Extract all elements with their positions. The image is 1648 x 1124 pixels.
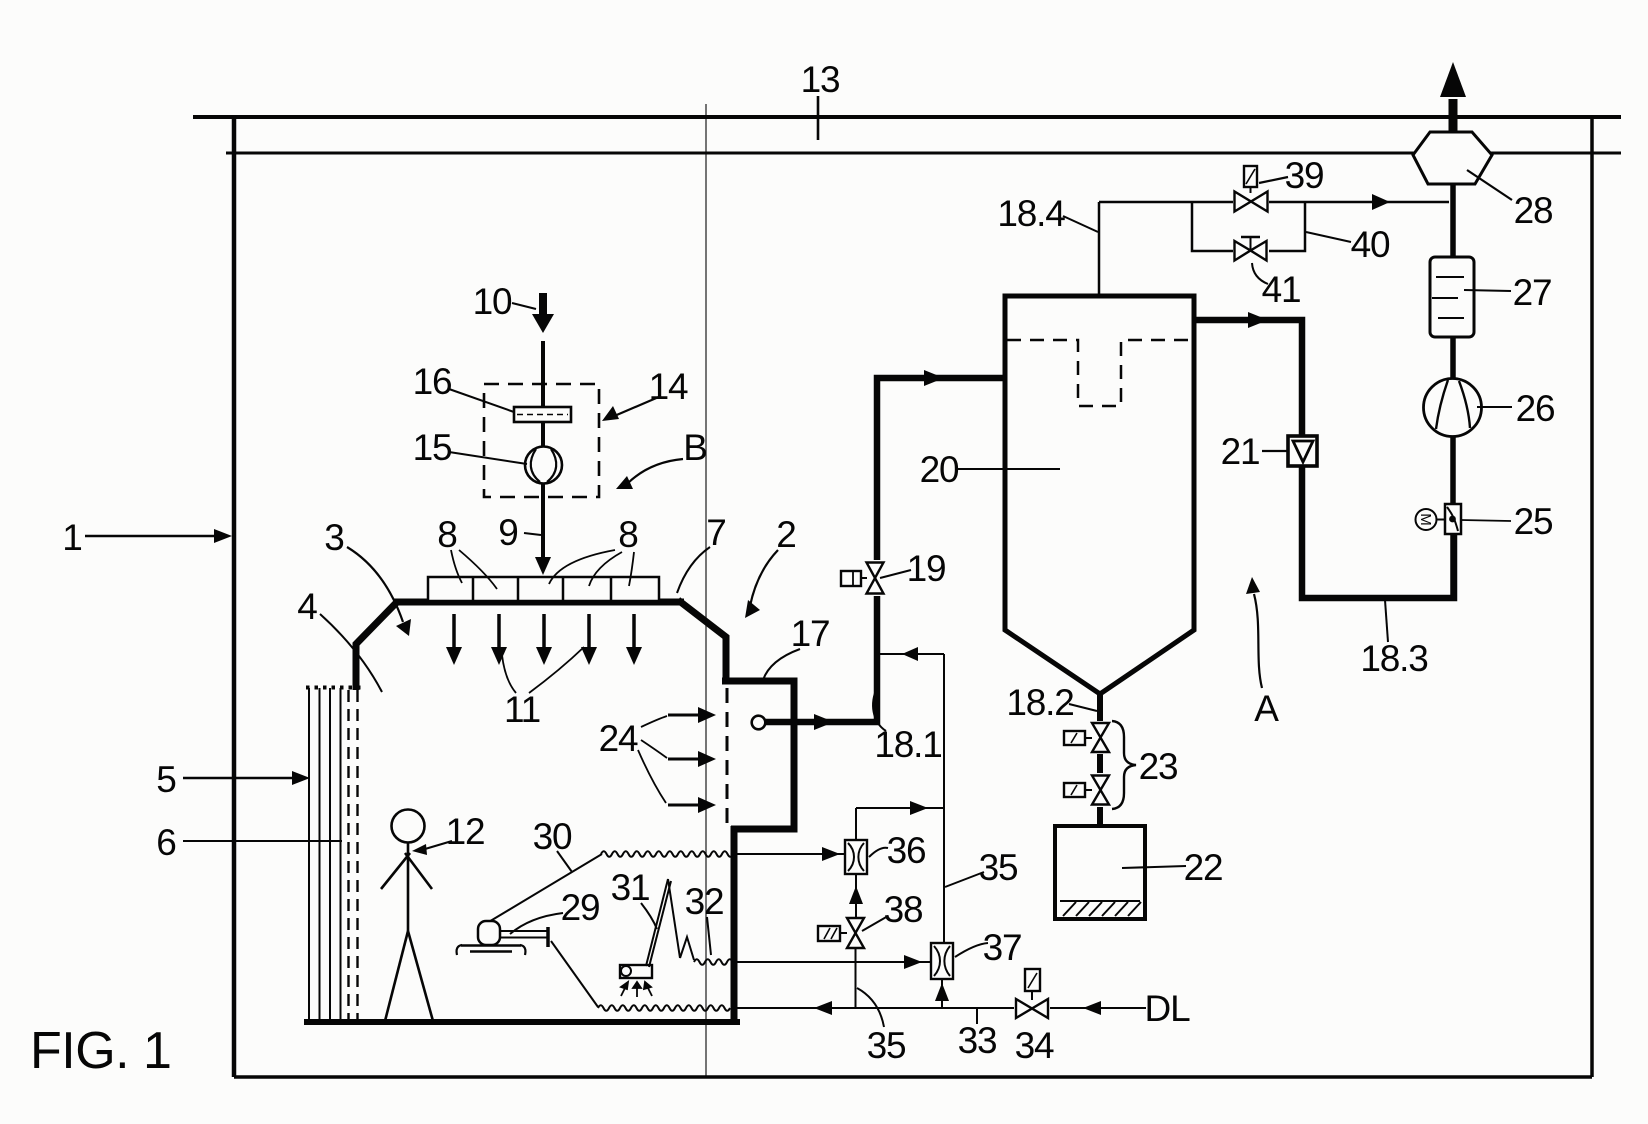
spray curtain wavy line bottom (598, 1005, 730, 1011)
svg-text:18.4: 18.4 (997, 193, 1065, 234)
feeder slab 16 (514, 407, 571, 422)
svg-text:2: 2 (776, 514, 795, 555)
svg-text:1: 1 (62, 517, 81, 558)
roof filter boxes 8 (428, 577, 659, 601)
exhaust arrow (1449, 99, 1458, 131)
svg-text:41: 41 (1262, 269, 1301, 310)
svg-text:22: 22 (1184, 847, 1223, 888)
line from chamber to venturi 37 (737, 961, 931, 963)
svg-text:39: 39 (1285, 155, 1324, 196)
svg-text:35: 35 (979, 847, 1018, 888)
svg-text:FIG. 1: FIG. 1 (30, 1022, 171, 1080)
svg-text:36: 36 (887, 830, 926, 871)
spray curtain wavy line middle 32 (694, 959, 733, 965)
crane 31 (620, 879, 694, 978)
wire: inlet duct 9 vertical pipe (541, 341, 545, 560)
venturi 36 riser (855, 808, 857, 918)
flow arrow on 18.1 horizontal (814, 714, 834, 730)
arrow into roof nozzles (535, 557, 551, 575)
hand valve 41 (1233, 241, 1269, 261)
spray zone boundary lines 30 (487, 854, 602, 923)
dust discharge pipe 18.2 (1097, 692, 1103, 828)
svg-text:15: 15 (413, 427, 452, 468)
filter wall 5/6 (306, 688, 361, 1021)
svg-text:12: 12 (446, 811, 485, 852)
venturi 37 (941, 979, 943, 1008)
svg-text:3: 3 (324, 517, 343, 558)
worker figure 12 (381, 810, 433, 1022)
venturi 36 (845, 840, 867, 874)
air arrows 24 through perforated wall (668, 707, 716, 813)
svg-text:33: 33 (958, 1020, 997, 1061)
svg-text:24: 24 (599, 718, 638, 759)
svg-text:25: 25 (1514, 501, 1553, 542)
svg-text:26: 26 (1516, 388, 1555, 429)
svg-text:6: 6 (156, 822, 175, 863)
svg-text:B: B (683, 427, 706, 468)
spray curtain wavy line top 30 (601, 851, 733, 857)
svg-text:18.2: 18.2 (1006, 682, 1073, 723)
svg-text:10: 10 (473, 281, 512, 322)
svg-text:14: 14 (649, 366, 688, 407)
svg-text:30: 30 (533, 816, 572, 857)
dust container 22 (1055, 826, 1145, 919)
control valve 39 (1233, 191, 1269, 212)
material inflow arrow 10 (539, 293, 547, 317)
svg-text:11: 11 (504, 689, 540, 730)
chamber floor (304, 1019, 740, 1025)
svg-text:20: 20 (920, 449, 959, 490)
svg-text:29: 29 (561, 887, 600, 928)
chamber wall: right slant 7 (678, 600, 726, 684)
outlet plenum 17 walls (722, 681, 794, 829)
svg-text:5: 5 (156, 759, 176, 800)
spray vehicle 29 (457, 921, 548, 955)
line from chamber to venturi 36 (737, 853, 845, 855)
svg-text:8: 8 (437, 514, 456, 555)
svg-text:27: 27 (1513, 272, 1552, 313)
svg-text:16: 16 (413, 361, 452, 402)
brace and label 23 (1112, 721, 1136, 809)
chamber wall below plenum (731, 826, 738, 1025)
flow meter 21 (1288, 436, 1317, 466)
svg-text:17: 17 (791, 613, 830, 654)
svg-text:28: 28 (1514, 190, 1553, 231)
svg-text:21: 21 (1221, 431, 1260, 472)
svg-text:34: 34 (1015, 1025, 1054, 1066)
clean gas duct to 21 and 18.3 (1192, 320, 1454, 598)
perforated wall (dashed) of plenum (726, 688, 729, 826)
svg-text:13: 13 (801, 59, 840, 100)
chamber wall: roof line (394, 599, 684, 606)
pressure air line DL (737, 1007, 1146, 1009)
svg-text:4: 4 (297, 586, 317, 627)
svg-text:8: 8 (618, 514, 637, 555)
chamber wall: left slant + stub (356, 602, 397, 690)
vortex finder (dashed) (1007, 340, 1192, 406)
svg-text:40: 40 (1351, 224, 1390, 265)
svg-text:18.3: 18.3 (1360, 638, 1427, 679)
svg-text:23: 23 (1139, 746, 1178, 787)
svg-text:32: 32 (685, 881, 724, 922)
svg-text:19: 19 (907, 548, 946, 589)
roof stack 28 (hexagon) (1413, 132, 1492, 184)
double flap valves 23 (1089, 721, 1112, 754)
motor damper 25 (1445, 504, 1461, 534)
valve 19 on riser (864, 560, 886, 596)
blower 15 (525, 447, 562, 484)
bypass loop 40 (1192, 202, 1305, 251)
svg-text:9: 9 (498, 512, 517, 553)
dosing unit box 14 (dashed) (484, 384, 599, 497)
svg-text:31: 31 (611, 867, 650, 908)
svg-text:37: 37 (983, 927, 1022, 968)
nozzle air arrows 11 (454, 614, 634, 649)
silencer 27 (1430, 257, 1474, 337)
valve 38 (855, 948, 857, 1008)
shaking arrows under crane (621, 982, 652, 997)
svg-text:M: M (1417, 513, 1434, 526)
svg-text:38: 38 (884, 889, 923, 930)
port circle in plenum (752, 716, 766, 730)
svg-text:DL: DL (1145, 988, 1191, 1029)
svg-text:A: A (1254, 688, 1279, 729)
valve 34 (1014, 999, 1050, 1019)
suction line 35 to pipe 18.1 (879, 653, 944, 655)
svg-text:35: 35 (867, 1025, 906, 1066)
enclosure border 1 (outer box) (193, 117, 1621, 1077)
fold line (faint vertical) (705, 104, 707, 1076)
exhaust fan 26 (1424, 379, 1482, 437)
